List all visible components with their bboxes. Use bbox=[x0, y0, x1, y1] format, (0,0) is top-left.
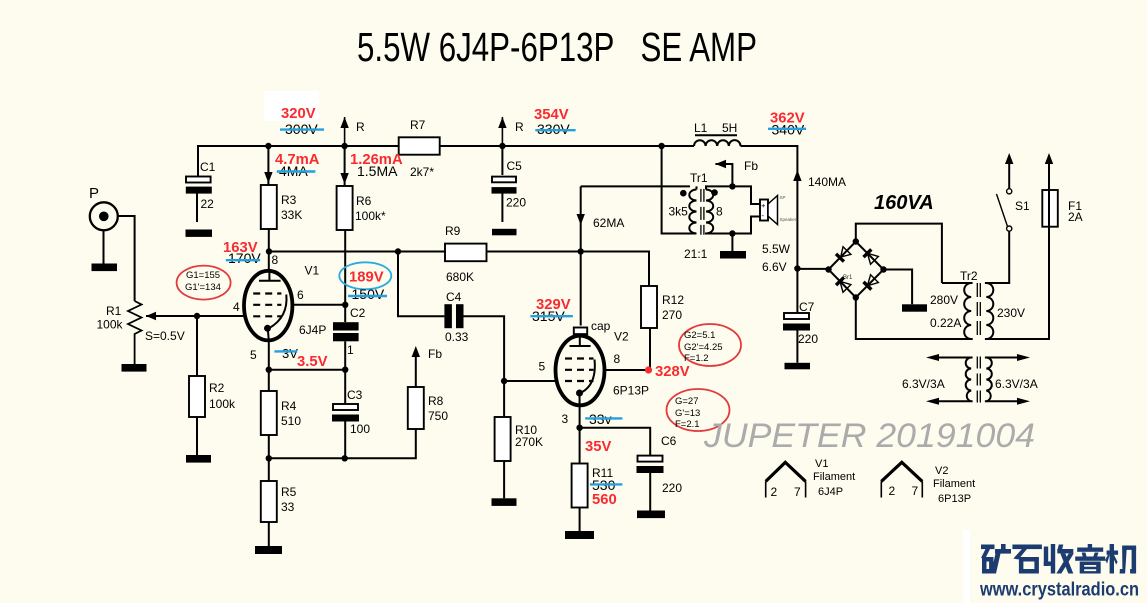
svg-text:7: 7 bbox=[794, 485, 801, 499]
svg-text:JUPETER 20191004: JUPETER 20191004 bbox=[703, 417, 1035, 455]
svg-text:270K: 270K bbox=[515, 435, 543, 449]
svg-text:R2: R2 bbox=[209, 381, 225, 395]
svg-text:6: 6 bbox=[297, 288, 304, 302]
svg-text:Speaker: Speaker bbox=[780, 217, 797, 222]
svg-text:C7: C7 bbox=[799, 300, 815, 314]
svg-text:2: 2 bbox=[771, 485, 778, 499]
svg-text:cap: cap bbox=[591, 319, 611, 333]
svg-text:C5: C5 bbox=[507, 159, 523, 173]
svg-text:R6: R6 bbox=[356, 194, 372, 208]
svg-text:R9: R9 bbox=[445, 224, 461, 238]
svg-text:www.crystalradio.cn: www.crystalradio.cn bbox=[979, 580, 1139, 601]
svg-text:4: 4 bbox=[233, 300, 240, 314]
svg-text:C1: C1 bbox=[200, 160, 216, 174]
svg-text:G1=155: G1=155 bbox=[186, 270, 220, 281]
svg-text:150V: 150V bbox=[352, 286, 385, 302]
svg-text:8: 8 bbox=[716, 205, 723, 219]
svg-text:2k7*: 2k7* bbox=[410, 165, 434, 179]
svg-text:189V: 189V bbox=[349, 270, 384, 286]
svg-text:680K: 680K bbox=[446, 270, 474, 284]
svg-text:R7: R7 bbox=[410, 118, 426, 132]
svg-text:S=0.5V: S=0.5V bbox=[145, 329, 185, 343]
svg-text:Fb: Fb bbox=[428, 347, 442, 361]
svg-text:V2: V2 bbox=[935, 465, 948, 477]
svg-text:V1: V1 bbox=[305, 264, 320, 278]
svg-text:320V: 320V bbox=[281, 106, 316, 122]
svg-text:560: 560 bbox=[592, 492, 617, 508]
svg-text:G1'=134: G1'=134 bbox=[185, 282, 221, 293]
svg-text:220: 220 bbox=[798, 332, 818, 346]
svg-text:G2=5.1: G2=5.1 bbox=[684, 330, 715, 341]
svg-text:R4: R4 bbox=[281, 399, 297, 413]
svg-text:R: R bbox=[515, 120, 524, 134]
svg-text:G2'=4.25: G2'=4.25 bbox=[684, 342, 723, 353]
svg-text:3.5V: 3.5V bbox=[297, 354, 328, 370]
svg-text:Filament: Filament bbox=[813, 471, 855, 483]
svg-text:R3: R3 bbox=[281, 193, 297, 207]
svg-text:6.3V/3A: 6.3V/3A bbox=[995, 377, 1038, 391]
svg-text:100: 100 bbox=[350, 422, 370, 436]
svg-text:P: P bbox=[89, 185, 99, 202]
svg-text:6P13P: 6P13P bbox=[938, 493, 971, 505]
svg-text:R8: R8 bbox=[428, 394, 444, 408]
svg-text:C4: C4 bbox=[446, 290, 462, 304]
svg-text:F=2.1: F=2.1 bbox=[675, 419, 700, 430]
svg-text:3V: 3V bbox=[282, 346, 298, 361]
svg-text:328V: 328V bbox=[655, 364, 690, 380]
svg-text:510: 510 bbox=[281, 414, 301, 428]
svg-text:C2: C2 bbox=[350, 306, 366, 320]
svg-text:L1: L1 bbox=[694, 121, 708, 135]
svg-text:5: 5 bbox=[539, 360, 546, 374]
svg-text:S1: S1 bbox=[1015, 199, 1030, 213]
svg-text:5.5W: 5.5W bbox=[762, 242, 791, 256]
svg-text:8: 8 bbox=[614, 352, 621, 366]
svg-text:R: R bbox=[356, 120, 365, 134]
svg-text:V1: V1 bbox=[815, 458, 828, 470]
svg-text:750: 750 bbox=[428, 409, 448, 423]
svg-text:5.5W 6J4P-6P13P SE AMP: 5.5W 6J4P-6P13P SE AMP bbox=[357, 24, 757, 70]
svg-text:6J4P: 6J4P bbox=[299, 323, 326, 337]
svg-text:1: 1 bbox=[347, 343, 354, 357]
svg-text:F=1.2: F=1.2 bbox=[684, 353, 709, 364]
svg-text:220: 220 bbox=[662, 481, 682, 495]
svg-text:6J4P: 6J4P bbox=[818, 486, 843, 498]
svg-text:5: 5 bbox=[250, 348, 257, 362]
svg-text:6.6V: 6.6V bbox=[762, 260, 787, 274]
svg-text:7: 7 bbox=[912, 484, 919, 498]
svg-text:220: 220 bbox=[506, 196, 526, 210]
svg-text:33: 33 bbox=[281, 500, 295, 514]
svg-text:3k5: 3k5 bbox=[669, 205, 689, 219]
svg-text:140MA: 140MA bbox=[808, 175, 846, 189]
svg-text:270: 270 bbox=[662, 308, 682, 322]
svg-text:8: 8 bbox=[272, 253, 279, 267]
svg-text:SP: SP bbox=[780, 195, 786, 200]
svg-text:6P13P: 6P13P bbox=[613, 384, 649, 398]
svg-text:280V: 280V bbox=[930, 293, 958, 307]
svg-text:5H: 5H bbox=[722, 121, 737, 135]
svg-text:100k: 100k bbox=[97, 318, 124, 332]
svg-text:62MA: 62MA bbox=[593, 216, 624, 230]
svg-text:+: + bbox=[761, 201, 766, 210]
svg-text:R5: R5 bbox=[281, 485, 297, 499]
svg-text:0.33: 0.33 bbox=[445, 330, 469, 344]
svg-text:0.22A: 0.22A bbox=[930, 316, 961, 330]
svg-text:Br1: Br1 bbox=[843, 275, 853, 281]
svg-text:C6: C6 bbox=[661, 434, 677, 448]
svg-text:R1: R1 bbox=[106, 304, 122, 318]
svg-text:Tr1: Tr1 bbox=[690, 171, 708, 185]
svg-text:33K: 33K bbox=[281, 208, 302, 222]
svg-text:2: 2 bbox=[889, 484, 896, 498]
svg-text:R12: R12 bbox=[662, 293, 684, 307]
svg-text:Tr2: Tr2 bbox=[960, 269, 978, 283]
svg-text:160VA: 160VA bbox=[874, 192, 934, 214]
svg-text:Filament: Filament bbox=[933, 478, 975, 490]
svg-text:22: 22 bbox=[201, 197, 215, 211]
svg-text:230V: 230V bbox=[997, 306, 1025, 320]
svg-text:2A: 2A bbox=[1068, 210, 1083, 224]
svg-text:6.3V/3A: 6.3V/3A bbox=[902, 377, 945, 391]
svg-text:C3: C3 bbox=[347, 388, 363, 402]
svg-text:Fb: Fb bbox=[744, 159, 758, 173]
svg-text:V2: V2 bbox=[614, 330, 629, 344]
svg-text:170V: 170V bbox=[228, 250, 261, 266]
svg-text:3: 3 bbox=[562, 412, 569, 426]
svg-text:35V: 35V bbox=[585, 439, 611, 455]
svg-text:G=27: G=27 bbox=[675, 396, 699, 407]
svg-text:G'=13: G'=13 bbox=[675, 408, 700, 419]
svg-text:1.5MA: 1.5MA bbox=[357, 163, 398, 179]
svg-text:100k: 100k bbox=[209, 397, 236, 411]
svg-text:21:1: 21:1 bbox=[684, 247, 708, 261]
svg-text:100k*: 100k* bbox=[355, 209, 386, 223]
